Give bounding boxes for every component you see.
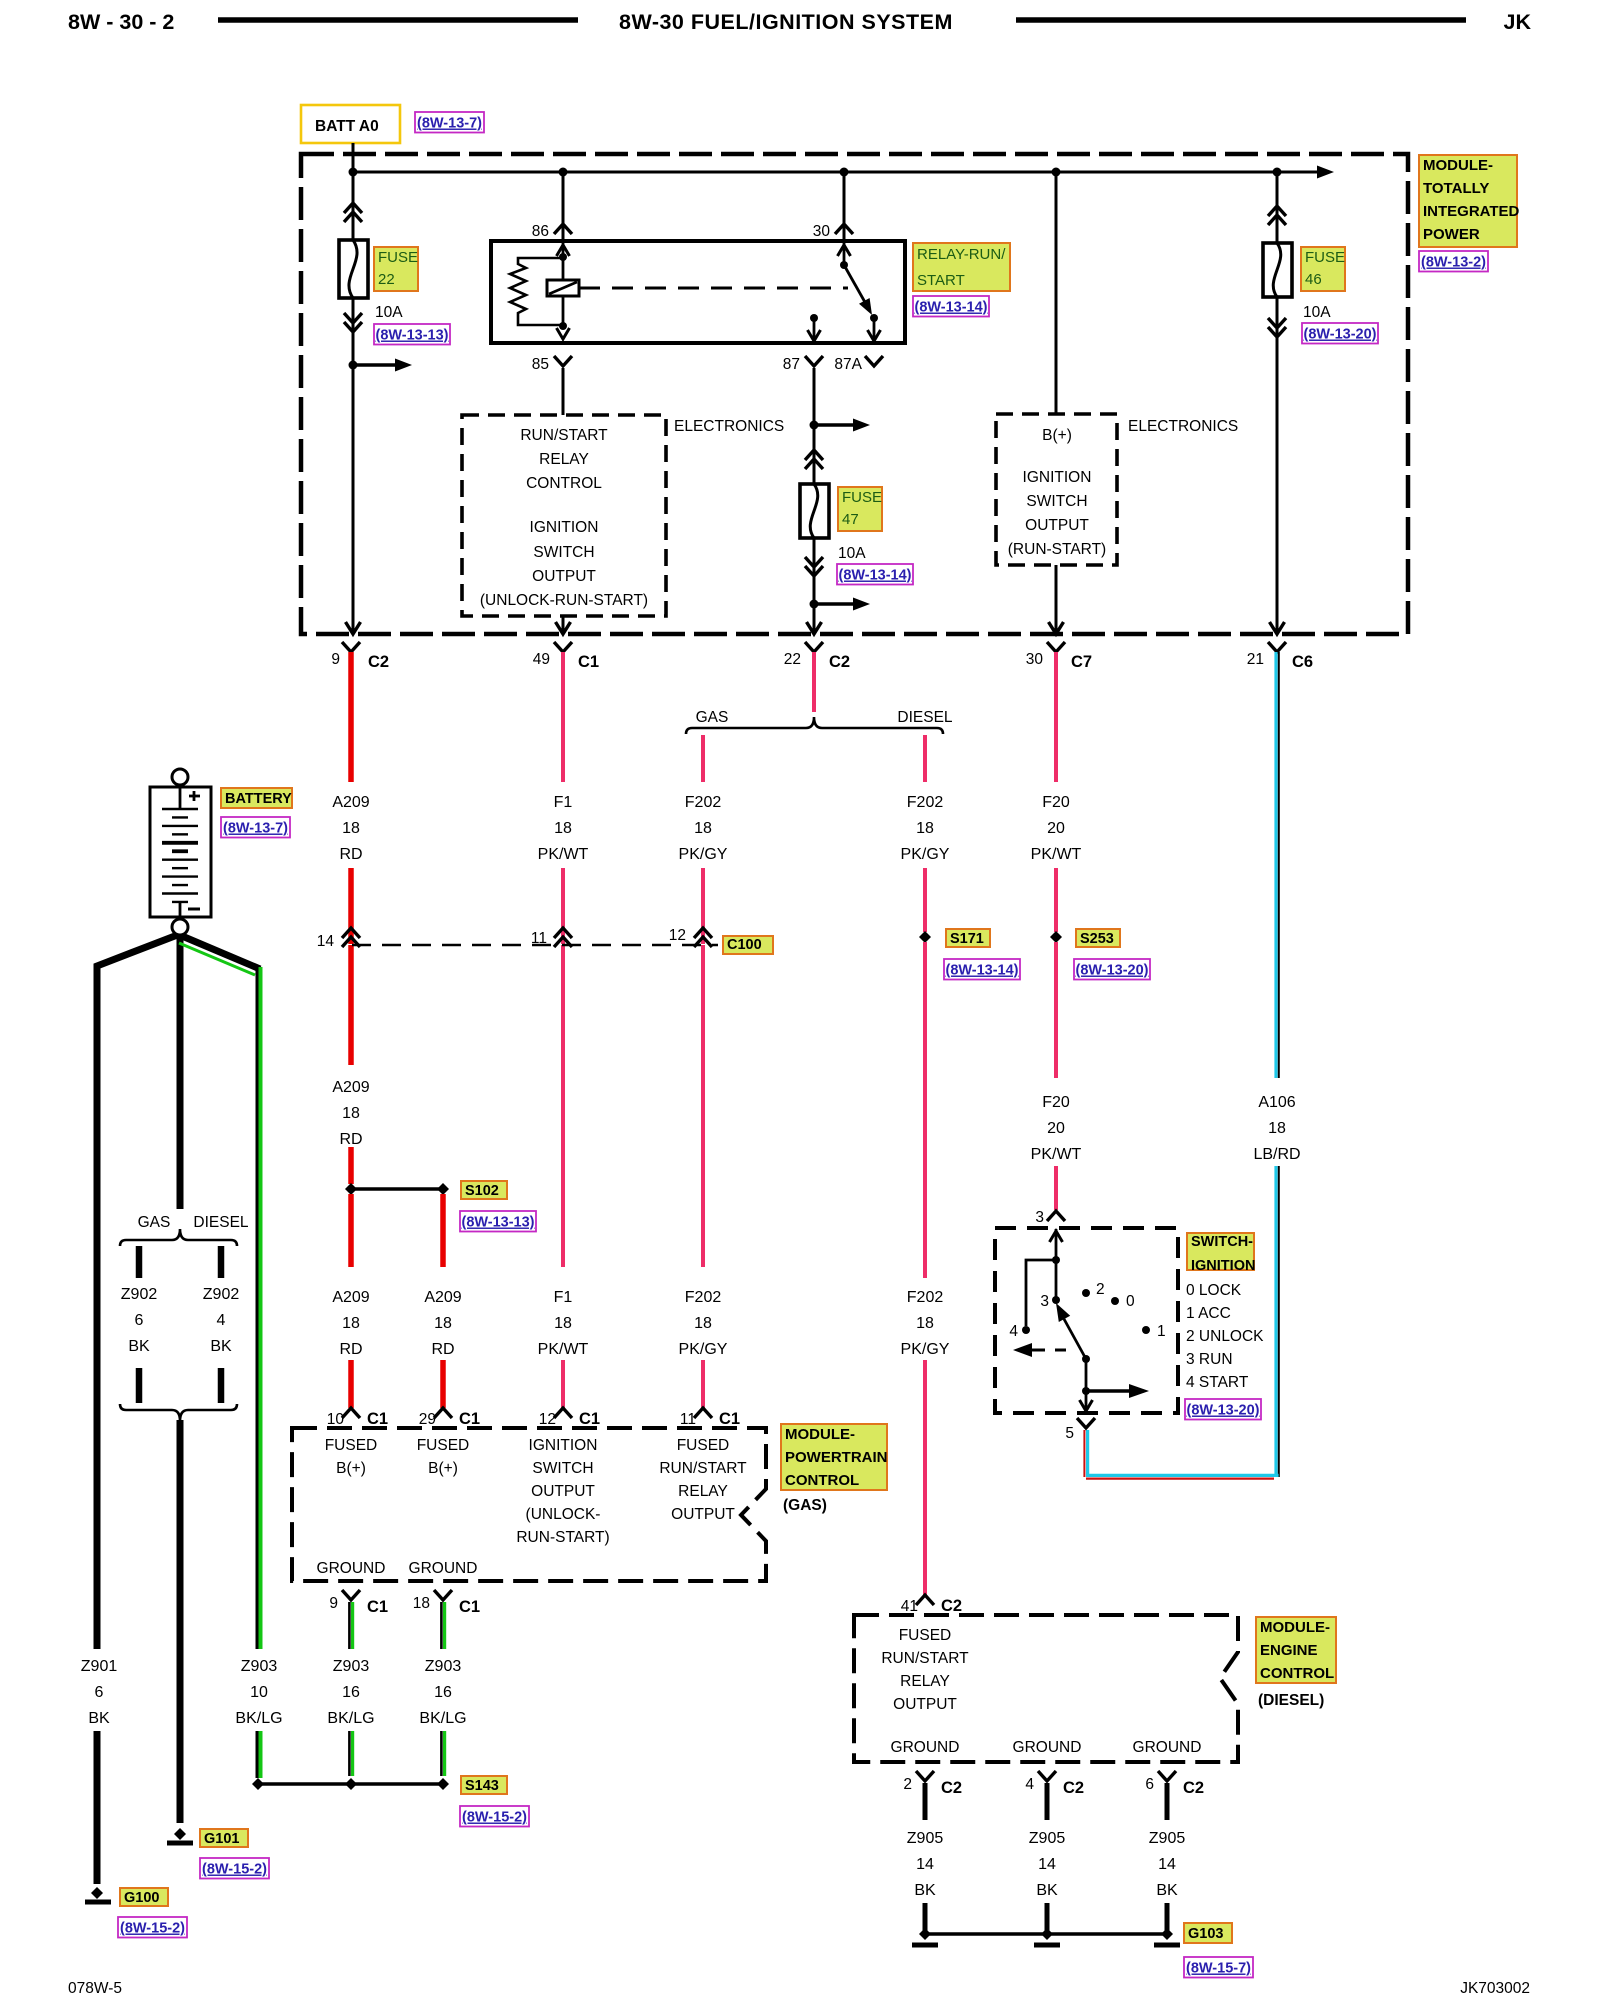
svg-text:RD: RD [339,1131,362,1148]
svg-text:GROUND: GROUND [317,1560,386,1577]
connector pin 9 of C1 below PCM [342,1590,360,1600]
svg-text:GROUND: GROUND [1013,1739,1082,1756]
label BATTERY highlight [221,788,292,808]
svg-text:85: 85 [532,356,549,373]
wire: tap arrow right from fuse 22 feed [353,363,398,366]
svg-text:3 RUN: 3 RUN [1186,1351,1233,1368]
svg-text:C1: C1 [367,1598,388,1616]
svg-text:41: 41 [901,1598,918,1615]
svg-text:B(+): B(+) [336,1460,366,1477]
svg-text:FUSE: FUSE [1305,249,1345,266]
node ignition output junction [1082,1387,1090,1395]
splice S102 node left [345,1183,357,1195]
link label (8W-13-14) for relay [913,296,989,317]
wire Z902 to ground G101 [177,1420,184,1823]
svg-text:DIESEL: DIESEL [193,1214,249,1231]
svg-text:PK/WT: PK/WT [538,846,589,863]
link label (8W-13-20) for ignition switch [1185,1399,1261,1420]
svg-text:86: 86 [532,223,549,240]
svg-text:8W - 30 - 2: 8W - 30 - 2 [68,10,174,34]
label SWITCH-IGNITION highlight [1187,1233,1254,1270]
svg-text:BK/LG: BK/LG [327,1710,374,1727]
svg-text:PK/WT: PK/WT [1031,1146,1082,1163]
wire Z905 14 BK segment 1 lower [923,1903,928,1934]
svg-text:18: 18 [554,820,572,837]
connector pin 11 of C1 at PCM [694,1408,712,1418]
svg-text:BK: BK [88,1710,110,1727]
wire Z903 16 BK/LG from PCM pin 9 [348,1602,351,1649]
connector chevrons below fuse 22 [344,322,362,332]
connector chevrons above fuse 46 [1268,206,1286,216]
label FUSE 22 highlight [374,247,418,291]
svg-text:11: 11 [680,1411,696,1428]
label G103 highlight [1184,1923,1232,1943]
wire F202 diesel to S171 [923,868,927,932]
ignition start-feed arrow right [1086,1389,1129,1393]
svg-text:S171: S171 [950,931,984,947]
wire F1 segment to C100 [561,868,565,944]
wire Z905 14 BK segment 2 lower [1045,1903,1050,1934]
fuse F47 element [800,484,829,538]
svg-text:CONTROL: CONTROL [1260,1665,1334,1682]
svg-text:RD: RD [339,1341,362,1358]
svg-text:BK: BK [128,1338,150,1355]
svg-text:ENGINE: ENGINE [1260,1642,1318,1659]
svg-text:BK: BK [210,1338,232,1355]
svg-text:18: 18 [694,1315,712,1332]
wire: control block down to pin 49 [562,616,565,631]
svg-text:C1: C1 [579,1410,600,1428]
svg-text:C1: C1 [719,1410,740,1428]
wire F202 diesel below S171 [923,942,927,1278]
wire A209 to PCM pin 10 [348,1360,354,1408]
node tap junction below fuse 47 [810,600,819,609]
svg-text:4: 4 [217,1312,226,1329]
link label (8W-13-20) for S253 [1074,959,1150,980]
node ignition terminal 3 [1052,1296,1060,1304]
svg-text:F20: F20 [1042,794,1070,811]
wire Z903 16 BK/LG from PCM pin 18 [440,1602,443,1649]
node relay contact 87A terminal [870,314,878,322]
svg-text:GROUND: GROUND [891,1739,960,1756]
svg-text:6: 6 [95,1684,104,1701]
svg-text:OUTPUT: OUTPUT [893,1696,957,1713]
svg-text:18: 18 [342,1105,360,1122]
svg-text:(8W-13-7): (8W-13-7) [223,821,288,837]
svg-text:C1: C1 [459,1410,480,1428]
link label (8W-15-2) for G100 [118,1917,187,1938]
wire Z903 pin 9 lower to S143 [348,1731,351,1776]
relay coil L1 symbol [547,280,579,296]
wire F1 below C100 down to label [561,945,565,1267]
wire Z902 6 BK gas stub upper [136,1246,143,1278]
module PCM - powertrain control dashed outline with notch [292,1428,766,1581]
svg-text:A209: A209 [332,1289,369,1306]
svg-text:BK: BK [1036,1882,1058,1899]
svg-text:MODULE-: MODULE- [1260,1619,1330,1636]
link label (8W-13-13) for S102 [460,1211,536,1232]
wire: relay pin 85 down to run/start relay control block [562,368,565,415]
link label (8W-15-7) for G103 [1184,1957,1253,1978]
wire Z905 14 BK segment 1 upper [923,1783,928,1820]
wire ignition rotor to output [1085,1359,1088,1409]
svg-text:F202: F202 [907,794,944,811]
wire Z905 14 BK segment 2 upper [1045,1783,1050,1820]
link label (8W-13-2) for TIPM [1419,251,1488,272]
node ignition terminal 2 [1082,1289,1090,1297]
node relay contact pivot [840,261,848,269]
splice S143 node center [345,1778,357,1790]
wire Z903 10 BK/LG lower segment to S143 [256,1731,259,1778]
svg-text:FUSED: FUSED [417,1437,470,1454]
connector pin 22 of C2 at TIPM [805,642,823,652]
tap arrow right below fuse 47 [814,602,856,605]
svg-text:(8W-13-13): (8W-13-13) [375,328,448,344]
svg-text:5: 5 [1065,1425,1074,1442]
wire F20 to ignition switch pin 3 [1054,1166,1058,1210]
svg-text:10A: 10A [838,545,866,562]
svg-text:14: 14 [1158,1856,1176,1873]
wire F202 gas below C100 [701,945,705,1267]
svg-text:RD: RD [339,846,362,863]
label MODULE-TOTALLY INTEGRATED POWER highlight [1419,155,1517,247]
connector pin 30 of C7 at TIPM [1047,642,1065,652]
svg-text:46: 46 [1305,271,1322,288]
node relay coil top junction [559,253,567,261]
svg-text:3: 3 [1040,1293,1049,1310]
link label (8W-13-14) for fuse 47 [837,564,913,585]
wire F1 to PCM pin 12 [561,1360,565,1408]
svg-text:RELAY-RUN/: RELAY-RUN/ [917,246,1006,263]
connector pin 2 of C2 below ECM [916,1771,934,1781]
svg-text:F1: F1 [554,1289,573,1306]
wire: fuse 22 down to pin 9 with tap [352,298,355,631]
wire: bus down to B+ ignition switch output block [1055,172,1058,414]
link label (8W-13-7) for BATT A0 [415,112,484,133]
splice S143 node right [437,1778,449,1790]
svg-text:20: 20 [1047,820,1065,837]
header rule left [218,17,578,23]
svg-text:A209: A209 [424,1289,461,1306]
wire Z902 6 BK gas stub lower [136,1368,143,1403]
svg-text:12: 12 [539,1411,556,1428]
label S143 highlight [461,1776,507,1794]
svg-text:29: 29 [419,1411,436,1428]
connector chevrons below fuse 47 [805,566,823,576]
svg-text:IGNITION: IGNITION [530,519,599,536]
svg-text:C1: C1 [459,1598,480,1616]
relay K1 RUN/START relay box [491,241,905,343]
svg-text:(8W-13-14): (8W-13-14) [838,568,911,584]
wire: bus down to relay pin 30 [843,172,846,241]
wire A209 18 RD from pin 9 [348,652,354,782]
wire Z905 14 BK segment 3 lower [1165,1903,1170,1934]
wire: bus down to fuse 22 [352,172,355,240]
wire A209 to PCM pin 29 [440,1360,446,1408]
svg-text:PK/GY: PK/GY [901,846,950,863]
svg-text:MODULE-: MODULE- [785,1426,855,1443]
svg-text:9: 9 [329,1595,338,1612]
pin 86 chevron at relay top [554,224,572,234]
label C100 highlight [723,936,773,954]
wire: bus down to fuse 46 [1276,172,1279,243]
svg-text:RUN/START: RUN/START [520,427,608,444]
svg-text:(8W-13-14): (8W-13-14) [914,300,987,316]
wire F202 diesel to ECM pin 41 [923,1360,927,1595]
svg-text:22: 22 [784,651,801,668]
node tap junction at 87 electronics feed [810,421,819,430]
svg-text:OUTPUT: OUTPUT [671,1506,735,1523]
wire Z902 4 BK diesel stub upper [218,1246,225,1278]
svg-text:4: 4 [1025,1776,1034,1793]
svg-text:10A: 10A [375,304,403,321]
svg-text:FUSE: FUSE [378,249,418,266]
pin 30 chevron at relay top [835,224,853,234]
label RELAY-RUN/START highlight [913,243,1010,291]
wire F20 to S253 [1054,868,1058,932]
connector C100 dashed line [352,944,718,947]
svg-text:30: 30 [813,223,831,240]
ground G101 symbol [174,1828,186,1840]
svg-text:FUSED: FUSED [899,1627,952,1644]
connector chevrons above fuse 22 [344,203,362,213]
link label (8W-13-14) for S171 [944,959,1020,980]
svg-text:1: 1 [1157,1323,1166,1340]
svg-text:Z901: Z901 [81,1658,118,1675]
node relay coil bottom junction [559,322,567,330]
svg-text:B(+): B(+) [1042,427,1072,444]
label G100 highlight [120,1888,168,1906]
svg-text:(8W-13-14): (8W-13-14) [945,963,1018,979]
wire Z902 4 BK diesel stub lower [218,1368,225,1403]
relay internal: coil to contact dashed link [579,287,848,290]
svg-text:F202: F202 [907,1289,944,1306]
label S102 highlight [461,1181,507,1199]
svg-text:18: 18 [434,1315,452,1332]
connector pin 10 of C1 at PCM [342,1408,360,1418]
node ignition internal junction [1052,1256,1060,1264]
svg-text:16: 16 [342,1684,360,1701]
link label (8W-13-20) for fuse 46 [1302,323,1378,344]
svg-text:RUN/START: RUN/START [659,1460,747,1477]
relay pin 85 internal arrow [557,328,570,339]
svg-text:C2: C2 [368,653,389,671]
block: TIPM electronics B(+) IGNITION SWITCH OUTPUT dashed box [996,414,1117,565]
svg-text:9: 9 [331,651,340,668]
connector chevrons above fuse 47 [805,450,823,460]
ground G103 node 2 [1041,1928,1053,1940]
svg-text:C100: C100 [727,937,762,953]
label S171 highlight [946,929,990,947]
label MODULE-ENGINE CONTROL highlight [1256,1617,1336,1683]
connector pin 29 of C1 at PCM [434,1408,452,1418]
svg-text:14: 14 [317,933,335,950]
svg-text:C2: C2 [941,1779,962,1797]
svg-text:A209: A209 [332,1079,369,1096]
svg-text:A209: A209 [332,794,369,811]
svg-text:(8W-13-20): (8W-13-20) [1075,963,1148,979]
svg-text:LB/RD: LB/RD [1253,1146,1300,1163]
battery negative terminal circle placeholder [0,0,1,1]
svg-text:C2: C2 [941,1597,962,1615]
svg-text:(8W-13-13): (8W-13-13) [461,1215,534,1231]
node relay contact 87 terminal [810,314,818,322]
node ignition terminal 1 [1142,1326,1150,1334]
svg-text:18: 18 [342,820,360,837]
label FUSE 47 highlight [838,487,882,531]
svg-text:RD: RD [431,1341,454,1358]
block: TIPM electronics RUN/START RELAY CONTROL dashed box [462,415,666,616]
svg-text:F1: F1 [554,794,573,811]
wire A209 below C100 [348,945,354,1065]
svg-text:Z903: Z903 [333,1658,370,1675]
link label (8W-15-2) for S143 [460,1806,529,1827]
svg-text:Z903: Z903 [241,1658,278,1675]
battery B1 symbol [150,787,211,917]
wire: B+ bus across TIPM [353,171,1324,174]
resistor R-coil suppression zigzag [510,258,563,325]
relay contact: pin 30 internal wire [843,241,846,265]
node tap junction below fuse 22 [349,361,358,370]
wire F202 gas to PCM pin 11 [701,1360,705,1408]
svg-text:Z902: Z902 [203,1286,240,1303]
pin 85 chevron below relay [554,356,572,366]
ground G103 node 3 [1161,1928,1173,1940]
svg-text:BK/LG: BK/LG [419,1710,466,1727]
svg-text:RELAY: RELAY [678,1483,728,1500]
svg-text:MODULE-: MODULE- [1423,157,1493,174]
svg-text:POWER: POWER [1423,226,1480,243]
wire Z902: battery negative middle drop [177,935,184,1209]
relay movable contact arm toward 87A [844,265,866,304]
battery negative terminal [172,919,188,935]
svg-text:(8W-15-2): (8W-15-2) [202,1862,267,1878]
svg-text:OUTPUT: OUTPUT [1025,517,1089,534]
svg-text:6: 6 [135,1312,144,1329]
wire A209 from S102 down - right branch [440,1194,446,1267]
svg-text:BK: BK [914,1882,936,1899]
svg-text:22: 22 [378,271,395,288]
svg-text:Z905: Z905 [1149,1830,1186,1847]
svg-text:14: 14 [916,1856,934,1873]
svg-text:PK/GY: PK/GY [679,1341,728,1358]
svg-text:6: 6 [1145,1776,1154,1793]
svg-text:18: 18 [1268,1120,1286,1137]
svg-text:078W-5: 078W-5 [68,1980,122,1997]
link label (8W-15-2) for G101 [200,1858,269,1879]
svg-text:OUTPUT: OUTPUT [531,1483,595,1500]
svg-text:ELECTRONICS: ELECTRONICS [1128,418,1238,435]
module ECM - engine control dashed outline with notch [854,1615,1238,1762]
svg-text:14: 14 [1038,1856,1056,1873]
svg-text:F202: F202 [685,1289,722,1306]
pin arrow into TIPM bottom at pin 22 [807,622,822,634]
svg-text:(DIESEL): (DIESEL) [1258,1692,1324,1709]
svg-text:10: 10 [250,1684,268,1701]
svg-text:10A: 10A [1303,304,1331,321]
svg-text:21: 21 [1247,651,1264,668]
svg-text:(UNLOCK-: (UNLOCK- [526,1506,601,1523]
svg-text:18: 18 [916,820,934,837]
brace: GAS/DIESEL split of Z902 [120,1229,237,1246]
connector pin 12 of C1 at PCM [554,1408,572,1418]
svg-text:30: 30 [1026,651,1044,668]
svg-text:INTEGRATED: INTEGRATED [1423,203,1520,220]
svg-text:Z905: Z905 [1029,1830,1066,1847]
svg-text:S102: S102 [465,1183,499,1199]
svg-text:PK/WT: PK/WT [538,1341,589,1358]
pin 87 chevron below relay [805,356,823,366]
ground bus to G103 [925,1932,1167,1935]
splice S102 bus [351,1187,443,1190]
svg-text:49: 49 [533,651,550,668]
splice S102 node right [437,1183,449,1195]
connector pin 5 of ignition switch [1077,1418,1095,1428]
svg-text:2: 2 [1096,1281,1105,1298]
svg-text:2 UNLOCK: 2 UNLOCK [1186,1328,1264,1345]
svg-text:S143: S143 [465,1778,499,1794]
svg-text:10: 10 [327,1411,345,1428]
connector pin 6 of C2 below ECM [1158,1771,1176,1781]
svg-text:F202: F202 [685,794,722,811]
wire Z901 6 BK: battery negative to G100 - diagonal [97,934,180,1649]
svg-text:18: 18 [694,820,712,837]
svg-text:A106: A106 [1258,1094,1295,1111]
node bus junction at relay pin 86 drop [559,168,568,177]
node ignition rotor pivot [1082,1355,1090,1363]
svg-text:PK/WT: PK/WT [1031,846,1082,863]
switch S1 ignition switch dashed box [995,1228,1178,1413]
svg-text:PK/GY: PK/GY [679,846,728,863]
connector chevrons below fuse 46 [1268,327,1286,337]
svg-text:RUN/START: RUN/START [881,1650,969,1667]
svg-text:CONTROL: CONTROL [526,475,602,492]
svg-text:(8W-13-20): (8W-13-20) [1303,327,1376,343]
wire A209 down to splice S102 [348,1147,354,1184]
svg-text:RELAY: RELAY [539,451,589,468]
node bus junction at relay pin 30 drop [840,168,849,177]
svg-text:(UNLOCK-RUN-START): (UNLOCK-RUN-START) [480,592,648,609]
svg-text:F20: F20 [1042,1094,1070,1111]
wire: relay pin 87 down to fuse 47 and pin 22 [813,368,816,631]
svg-text:C2: C2 [1183,1779,1204,1797]
ground G103 node 1 [919,1928,931,1940]
svg-text:FUSED: FUSED [325,1437,378,1454]
wire F20 20 PK/WT from pin 30 [1054,652,1058,782]
wire F1 18 PK/WT from pin 49 [561,652,565,782]
wire A209 from S102 down - left branch [348,1194,354,1267]
label MODULE-POWERTRAIN CONTROL highlight [781,1424,887,1490]
link label (8W-13-7) for battery [221,817,290,838]
svg-text:C1: C1 [367,1410,388,1428]
svg-text:18: 18 [413,1595,430,1612]
svg-text:DIESEL: DIESEL [897,709,953,726]
splice S143 bus left [258,1782,351,1785]
node ignition terminal 0 [1111,1297,1119,1305]
connector pin 4 of C2 below ECM [1038,1771,1056,1781]
svg-text:16: 16 [434,1684,452,1701]
svg-text:POWERTRAIN: POWERTRAIN [785,1449,888,1466]
svg-text:18: 18 [342,1315,360,1332]
wire Z903 10 BK/LG: battery negative diagonal with green tracer [182,936,260,969]
svg-text:G103: G103 [1188,1926,1223,1942]
connector C100 pin 11 chevrons [554,928,572,938]
svg-text:3: 3 [1035,1209,1044,1226]
svg-text:PK/GY: PK/GY [901,1341,950,1358]
connector pin 41 of C2 at ECM [916,1595,934,1605]
connector pin 21 of C6 at TIPM [1268,642,1286,652]
ignition rotor arm toward terminal 3 [1064,1319,1086,1359]
